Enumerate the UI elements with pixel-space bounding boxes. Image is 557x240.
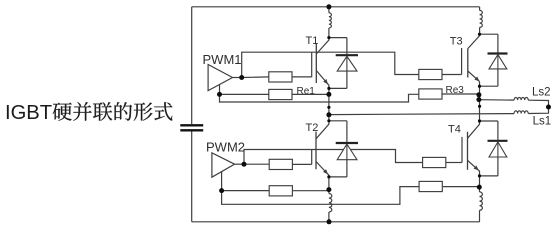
svg-text:Re1: Re1 xyxy=(297,86,316,97)
svg-text:T4: T4 xyxy=(448,123,461,135)
svg-text:PWM2: PWM2 xyxy=(206,140,245,155)
svg-text:IGBT: IGBT xyxy=(5,102,52,124)
svg-text:PWM1: PWM1 xyxy=(203,52,242,67)
svg-text:Ls2: Ls2 xyxy=(532,87,551,99)
svg-text:Re3: Re3 xyxy=(446,85,465,96)
svg-text:T2: T2 xyxy=(306,122,319,134)
svg-text:Ls1: Ls1 xyxy=(533,116,552,128)
svg-text:T3: T3 xyxy=(450,35,463,47)
svg-text:T1: T1 xyxy=(306,35,319,47)
